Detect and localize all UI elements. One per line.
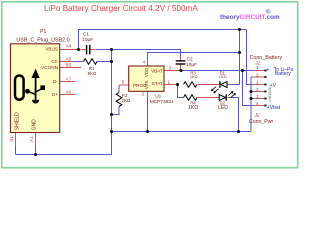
svg-text:U1: U1 bbox=[155, 94, 161, 100]
svg-text:3: 3 bbox=[256, 94, 259, 99]
svg-text:2KΩ: 2KΩ bbox=[122, 98, 131, 103]
svg-text:B5: B5 bbox=[65, 62, 71, 67]
svg-text:D-: D- bbox=[53, 79, 58, 84]
svg-text:A4: A4 bbox=[65, 44, 71, 49]
svg-text:1KΩ: 1KΩ bbox=[190, 74, 198, 79]
svg-text:2: 2 bbox=[142, 92, 145, 97]
svg-text:1: 1 bbox=[256, 80, 259, 85]
svg-text:C1: C1 bbox=[83, 32, 89, 38]
svg-text:Battery: Battery bbox=[275, 71, 291, 77]
svg-text:A7: A7 bbox=[65, 76, 71, 81]
svg-text:+: + bbox=[266, 68, 270, 74]
svg-text:LED: LED bbox=[219, 74, 227, 79]
svg-text:10µF: 10µF bbox=[82, 37, 93, 43]
svg-text:+Vbat: +Vbat bbox=[267, 105, 281, 111]
svg-text:VSS: VSS bbox=[144, 80, 149, 89]
svg-text:P1: P1 bbox=[40, 29, 46, 35]
svg-text:1: 1 bbox=[168, 79, 171, 84]
svg-text:LED: LED bbox=[218, 105, 228, 111]
svg-text:5: 5 bbox=[122, 79, 125, 84]
svg-text:STAT: STAT bbox=[152, 81, 163, 86]
svg-text:2: 2 bbox=[256, 87, 259, 92]
svg-text:©: © bbox=[266, 8, 271, 16]
svg-text:10µF: 10µF bbox=[186, 62, 197, 68]
svg-text:VBAT: VBAT bbox=[151, 68, 163, 73]
svg-text:GND: GND bbox=[268, 86, 272, 95]
svg-text:GND: GND bbox=[32, 119, 38, 131]
svg-text:4: 4 bbox=[256, 101, 259, 106]
svg-text:5KΩ: 5KΩ bbox=[88, 71, 97, 76]
svg-text:1: 1 bbox=[256, 65, 259, 70]
svg-text:MCP73831: MCP73831 bbox=[150, 99, 174, 105]
svg-text:3: 3 bbox=[169, 66, 172, 71]
svg-text:CC: CC bbox=[51, 59, 58, 64]
svg-text:SHIELD: SHIELD bbox=[14, 112, 20, 130]
svg-text:Conn_Battery: Conn_Battery bbox=[250, 55, 283, 61]
svg-text:A5: A5 bbox=[65, 56, 71, 61]
svg-text:VCONN: VCONN bbox=[41, 65, 58, 70]
svg-text:LiPo Battery Charger Circuit 4: LiPo Battery Charger Circuit 4.2V / 500m… bbox=[44, 4, 198, 13]
svg-text:4: 4 bbox=[143, 59, 146, 64]
svg-text:C2: C2 bbox=[187, 57, 193, 63]
svg-text:S1: S1 bbox=[9, 136, 14, 142]
svg-text:A1: A1 bbox=[29, 136, 34, 142]
svg-text:2: 2 bbox=[256, 72, 259, 77]
svg-text:A6: A6 bbox=[65, 89, 71, 94]
svg-text:USB_C_Plug_USB2.0: USB_C_Plug_USB2.0 bbox=[16, 38, 69, 44]
svg-text:theoryCIRCUIT.com: theoryCIRCUIT.com bbox=[220, 14, 280, 21]
svg-text:D+: D+ bbox=[52, 92, 58, 97]
svg-text:VDD: VDD bbox=[144, 68, 149, 77]
svg-text:GND: GND bbox=[268, 94, 272, 103]
svg-text:VBUS: VBUS bbox=[45, 47, 58, 52]
svg-text:J2: J2 bbox=[254, 113, 260, 118]
svg-text:Conn_Pwr: Conn_Pwr bbox=[249, 119, 273, 125]
svg-text:1KΩ: 1KΩ bbox=[188, 105, 198, 111]
